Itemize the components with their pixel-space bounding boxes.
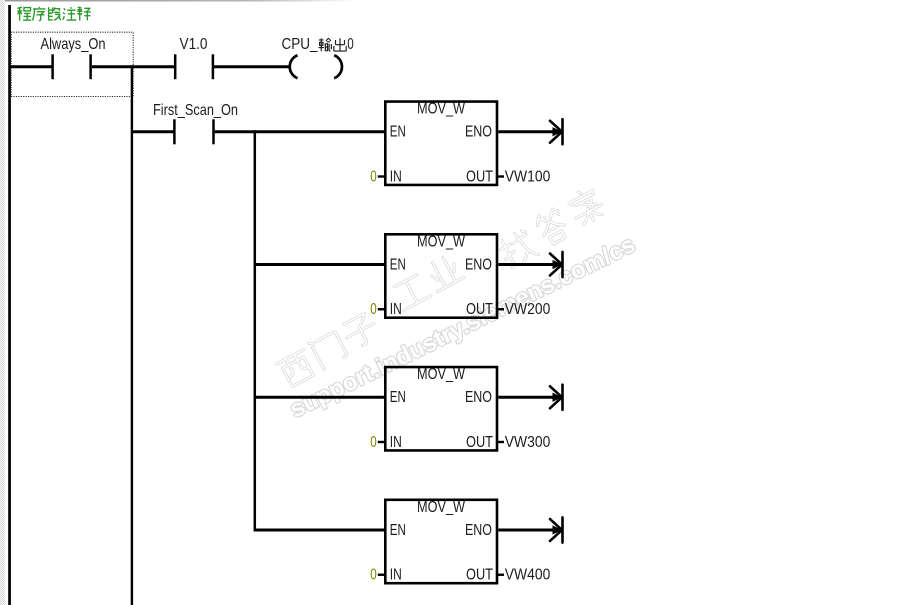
watermark char xi outline [277,350,317,388]
comment char xu [33,7,46,21]
svg-text:ENO: ENO [465,522,492,539]
svg-text:EN: EN [390,124,406,141]
svg-text:VW400: VW400 [505,567,551,584]
svg-text:IN: IN [390,168,402,185]
watermark char an core [566,185,606,227]
svg-text:MOV_W: MOV_W [417,101,466,118]
svg-text:MOV_W: MOV_W [417,366,466,383]
svg-text:VW200: VW200 [505,301,551,318]
svg-text:OUT: OUT [466,301,493,318]
comment char duan [49,7,61,20]
MOV_W block 3 [370,366,550,451]
watermark char an outline [566,185,606,227]
wire to contact First_Scan_On [131,130,174,133]
watermark char zhao core [497,228,539,270]
watermark char men outline [309,330,348,370]
comment char zhu [63,7,76,20]
arrow terminal 2 [550,252,563,277]
svg-text:0: 0 [370,301,377,318]
wire Always_On to V1.0 [92,65,175,68]
branch vertical wire [254,130,257,531]
ENO wire 2 [498,263,561,266]
svg-text:0: 0 [370,434,377,451]
MOV_W block 2 [370,233,550,318]
svg-text:OUT: OUT [466,168,493,185]
svg-text:OUT: OUT [466,434,493,451]
left window edge strip [0,0,5,605]
svg-text:0: 0 [370,168,377,185]
MOV_W block 4 [370,499,550,584]
svg-text:ENO: ENO [465,389,492,406]
svg-text:Always_On: Always_On [41,36,106,53]
svg-text:IN: IN [390,301,402,318]
watermark char ye core [424,253,464,292]
selection dotted box around Always_On [11,32,133,96]
branch wire to MOV_W box 4 [254,529,385,532]
watermark (behind diagram) [277,185,607,388]
wire rail to contact Always_On [10,65,52,68]
branch wire to MOV_W box 3 [254,396,385,399]
watermark char xi core [277,350,317,388]
watermark char da core [534,207,571,246]
svg-text:MOV_W: MOV_W [417,499,466,516]
svg-text:MOV_W: MOV_W [417,233,466,250]
wire First_Scan_On to MOV_W box 1 [215,130,385,133]
comment char cheng [17,7,31,20]
arrow terminal 1 [550,119,563,144]
svg-text:EN: EN [390,389,406,406]
left power rail [8,5,11,605]
svg-text:VW100: VW100 [505,168,551,185]
svg-text:EN: EN [390,522,406,539]
svg-text:ENO: ENO [465,124,492,141]
MOV_W block 1 [370,101,550,186]
contact V1.0 [175,36,213,79]
comment char shi [77,7,90,20]
top window edge line [0,0,356,2]
coil CPU_output0 [282,36,354,78]
svg-text:IN: IN [390,434,402,451]
network comment text (green) [17,7,90,21]
vertical wire down from rung 1 [131,65,133,605]
watermark char zhao outline [497,228,539,270]
contact Always_On [41,36,106,79]
ENO wire 1 [498,130,561,133]
watermark char zi outline [341,312,381,351]
branch wire to MOV_W box 2 [254,263,385,266]
watermark char gong core [392,274,431,311]
watermark char ye outline [424,253,464,292]
contact First_Scan_On [153,102,238,144]
watermark url text [286,231,640,423]
ENO wire 3 [498,396,561,399]
watermark char zi core [341,312,381,351]
arrow terminal 4 [550,517,563,542]
wire V1.0 to coil [214,65,290,68]
arrow terminal 3 [550,385,563,410]
svg-text:OUT: OUT [466,567,493,584]
watermark char gong outline [392,274,431,311]
watermark char men core [309,330,348,370]
svg-text:0: 0 [347,36,354,53]
svg-text:CPU_: CPU_ [282,36,319,53]
watermark char da outline [534,207,571,246]
svg-text:EN: EN [390,256,406,273]
svg-text:0: 0 [370,567,377,584]
svg-text:V1.0: V1.0 [180,36,208,53]
svg-text:IN: IN [390,567,402,584]
ENO wire 4 [498,529,561,532]
svg-text:VW300: VW300 [505,434,551,451]
svg-text:First_Scan_On: First_Scan_On [153,102,238,119]
svg-text:ENO: ENO [465,256,492,273]
